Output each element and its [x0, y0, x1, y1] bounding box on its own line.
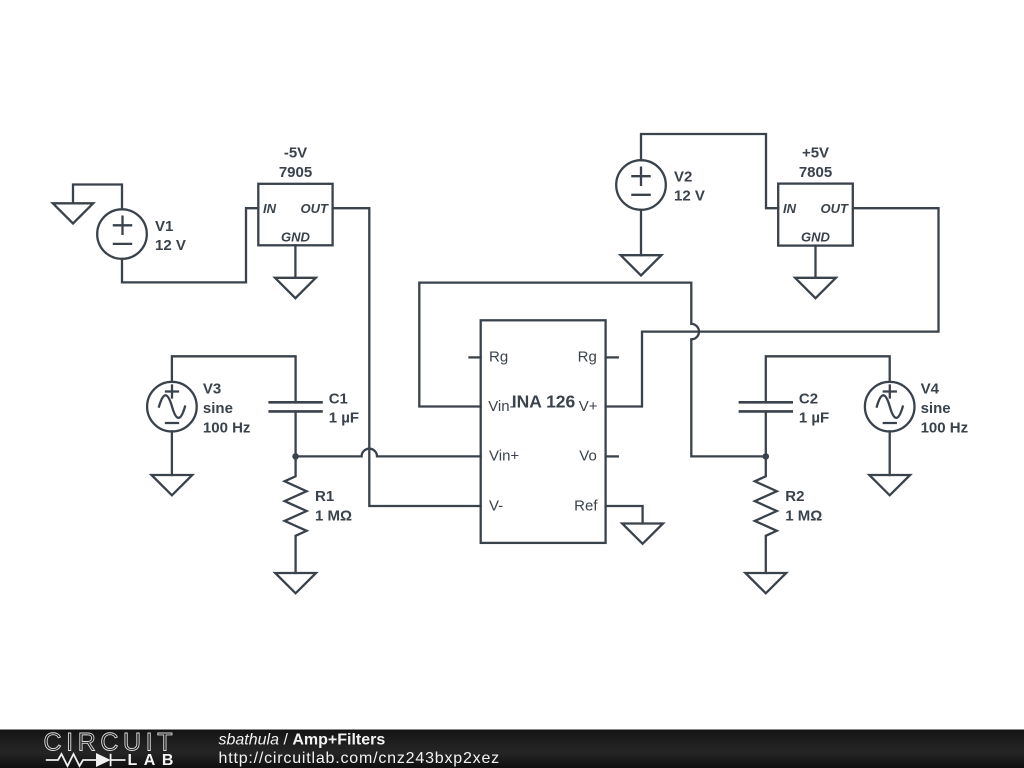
svg-text:C2: C2	[799, 390, 818, 407]
schematic text labels	[155, 145, 968, 525]
voltage source V3 sine	[147, 382, 197, 432]
regulator 7905 box	[258, 184, 332, 246]
svg-text:-5V: -5V	[284, 145, 307, 162]
wire C2 bottom to node	[765, 413, 767, 457]
voltage source V4 sine	[865, 382, 915, 432]
svg-text:V+: V+	[579, 398, 598, 415]
voltage source V1	[97, 209, 147, 259]
wire 7905 OUT to V- of INA	[333, 208, 481, 506]
wire Vin- to C2/R2 node (with hop)	[419, 283, 766, 457]
instrumentation amplifier INA 126 box	[481, 320, 606, 543]
pin stub Rg left	[470, 356, 481, 358]
ground (R2)	[745, 573, 786, 593]
wire V1 bottom to 7905 IN	[122, 208, 258, 282]
ground (V1)	[53, 203, 93, 223]
7805 GND lead	[814, 246, 816, 278]
svg-text:1 µF: 1 µF	[799, 410, 829, 427]
ground (7905)	[275, 278, 316, 298]
svg-text:1 MΩ: 1 MΩ	[315, 508, 352, 525]
ground (V2)	[621, 255, 662, 275]
svg-text:V2: V2	[674, 168, 692, 185]
logo resistor+diode	[46, 754, 126, 766]
svg-text:+5V: +5V	[802, 145, 829, 162]
svg-text:GND: GND	[281, 230, 311, 245]
regulator 7805 box	[778, 184, 853, 246]
INA 126 labels	[488, 349, 598, 515]
ground (Ref)	[622, 524, 663, 544]
svg-text:V-: V-	[489, 497, 503, 514]
ground (R1)	[275, 573, 316, 593]
svg-text:R2: R2	[785, 488, 804, 505]
svg-text:12 V: 12 V	[674, 188, 705, 205]
svg-text:1 µF: 1 µF	[329, 410, 359, 427]
pin stub Rg right	[606, 356, 618, 358]
svg-text:Ref: Ref	[574, 497, 598, 514]
wire V3 bottom lead	[171, 431, 173, 475]
wire V2 bottom lead	[640, 210, 642, 255]
regulator pin labels	[263, 201, 849, 245]
svg-text:1 MΩ: 1 MΩ	[785, 508, 822, 525]
svg-text:Rg: Rg	[578, 349, 597, 366]
capacitor C2	[740, 402, 792, 411]
svg-text:IN: IN	[783, 201, 797, 216]
wire 7805 OUT to V+ of INA	[606, 208, 939, 406]
node B junction dot	[763, 453, 770, 460]
svg-text:sbathula / Amp+Filters: sbathula / Amp+Filters	[219, 731, 386, 748]
svg-text:LAB: LAB	[128, 752, 180, 768]
pin stub Vo	[606, 455, 618, 457]
svg-text:7905: 7905	[279, 164, 312, 181]
wire V1 top to ground	[73, 185, 122, 210]
wire V4 bottom lead	[889, 431, 891, 475]
7905 GND lead	[294, 245, 296, 277]
svg-text:V1: V1	[155, 218, 173, 235]
wire Ref to ground	[606, 506, 643, 524]
svg-text:INA 126: INA 126	[512, 391, 576, 411]
svg-text:OUT: OUT	[301, 201, 330, 216]
voltage source V2	[616, 160, 666, 210]
footer bar	[0, 730, 1024, 768]
svg-text:Vin+: Vin+	[489, 448, 519, 465]
resistor R2	[755, 456, 777, 573]
wire V3 top to C1	[172, 356, 296, 401]
svg-text:12 V: 12 V	[155, 237, 186, 254]
svg-text:sine: sine	[203, 400, 233, 417]
svg-text:V3: V3	[203, 380, 221, 397]
svg-text:C1: C1	[329, 390, 348, 407]
ground (V3)	[152, 475, 193, 495]
svg-text:7805: 7805	[799, 164, 832, 181]
svg-text:GND: GND	[801, 230, 831, 245]
capacitor C1	[270, 402, 322, 411]
svg-text:100 Hz: 100 Hz	[921, 420, 969, 437]
svg-text:sine: sine	[921, 400, 951, 417]
wire C1 bottom to node	[294, 413, 296, 457]
ground (7805)	[795, 278, 836, 298]
svg-text:IN: IN	[263, 201, 277, 216]
svg-text:http://circuitlab.com/cnz243bx: http://circuitlab.com/cnz243bxp2xez	[219, 750, 500, 767]
wire C2 top to V4	[766, 356, 890, 401]
wire Vin+ to C1/R1 node (with hop)	[296, 449, 481, 457]
svg-text:OUT: OUT	[821, 201, 850, 216]
wire V2 top to 7805 IN	[641, 134, 778, 208]
svg-text:Rg: Rg	[489, 349, 508, 366]
svg-text:Vo: Vo	[579, 448, 597, 465]
resistor R1	[285, 456, 307, 573]
svg-text:V4: V4	[921, 380, 940, 397]
svg-text:Vin-: Vin-	[488, 398, 514, 415]
svg-text:100 Hz: 100 Hz	[203, 420, 251, 437]
svg-text:R1: R1	[315, 488, 334, 505]
ground (V4)	[869, 475, 910, 495]
node A junction dot	[292, 453, 299, 460]
